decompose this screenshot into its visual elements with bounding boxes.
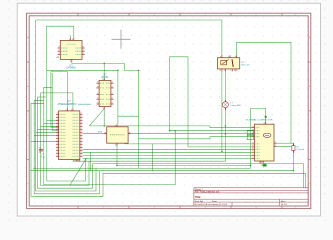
title block: [194, 188, 308, 206]
wire diagonal 1: [70, 158, 87, 185]
wire mcu left pin stub y132.3: [36, 131, 59, 133]
svg-text:Title:: Title:: [195, 195, 201, 199]
wire bus line a: [125, 143, 252, 145]
svg-text:Size: A4: Size: A4: [195, 200, 204, 203]
wire motor top feed: [251, 109, 266, 169]
wire vert 124 jog: [124, 63, 138, 70]
svg-text:CH-340G: CH-340G: [66, 68, 76, 70]
wire bus line c: [83, 148, 252, 150]
wire diagonal 2: [89, 109, 104, 126]
wire band row 163: [93, 164, 304, 188]
wire dht top up: [103, 63, 105, 80]
wire jog left of relay B: [187, 57, 189, 147]
wire mcu left pin stub y123.3: [44, 122, 59, 124]
wire motor right jog: [277, 142, 291, 144]
wire bus line e: [83, 154, 252, 156]
svg-text:ATMEGA328P-PU: ATMEGA328P-PU: [58, 103, 77, 106]
wire left rail 4: [41, 93, 89, 185]
wire row to motor pin1: [89, 126, 254, 128]
svg-text:RLY_5V: RLY_5V: [242, 65, 251, 67]
stepper U4 body: [254, 124, 274, 161]
net label box 2: [247, 135, 253, 139]
resistor R1 body: [292, 146, 295, 151]
svg-text:ST-NEMA17-CONNECTOR: ST-NEMA17-CONNECTOR: [246, 118, 273, 121]
wire mcu left pin stub y129.3: [37, 128, 58, 130]
lamp L1 circle: [222, 102, 228, 108]
wire U2 top pin short: [70, 35, 72, 38]
wire U2 top pin loop: [47, 26, 74, 70]
wire dht bottom down: [103, 107, 105, 126]
wire mcu left pin stub y135.3: [34, 134, 58, 136]
wire mcu top pinB up: [41, 93, 73, 108]
capacitor C1 pin marks: [39, 146, 40, 149]
wire row 63 from U2 bottom: [72, 62, 125, 63]
lamp L1 cross: [224, 103, 228, 107]
net label near U1: [78, 104, 91, 105]
wire mcu left pin stub y126.3: [41, 125, 59, 127]
svg-text:File: FinalChallenge.sch: File: FinalChallenge.sch: [195, 192, 220, 194]
svg-text:DHT11: DHT11: [101, 77, 109, 79]
wire left rail 2: [34, 100, 99, 194]
wire left rail 3: [37, 97, 92, 188]
svg-text:Rev:: Rev:: [281, 201, 286, 203]
wire left rail 6: [47, 70, 86, 181]
relay K1 body: [218, 58, 240, 69]
wire resistor bottom rail: [30, 151, 293, 171]
wire motor right to resistor: [277, 145, 294, 147]
stepper U4 oval: [263, 133, 271, 137]
wire relay NO to resistor net: [237, 42, 294, 145]
wire left rail long: [36, 20, 96, 191]
wire bus line b: [188, 146, 252, 148]
wire mcu left pin stub y141.3: [31, 140, 59, 142]
wire relay pin2 down: [221, 71, 223, 152]
svg-text:0.1u: 0.1u: [41, 157, 45, 159]
wire row 70 to speaker: [47, 69, 118, 71]
ground motor bottom: [263, 164, 266, 167]
svg-text:KiCad E.D.A. eeschema (5.1.5): KiCad E.D.A. eeschema (5.1.5)-3: [195, 203, 228, 206]
speaker BZ1 pins: [104, 124, 131, 146]
wire bus line f: [83, 157, 252, 159]
wire bus line d: [83, 151, 252, 153]
wire speaker to motor: [128, 133, 254, 135]
capacitor C1: [39, 148, 43, 150]
svg-text:BUZ: BUZ: [98, 132, 103, 134]
svg-text:Date:: Date:: [212, 200, 218, 203]
wire speaker top up: [117, 70, 119, 124]
relay K1 coil: [221, 60, 227, 65]
wire band row 165: [117, 164, 251, 166]
frame ticks: [27, 13, 311, 209]
IC U3 pins: [96, 78, 113, 109]
wire relay bottom to lamp: [225, 71, 227, 101]
node motor top: [265, 116, 267, 118]
wire pair vertical 2: [52, 73, 58, 130]
relay K1 arrow: [222, 60, 228, 64]
frame border outer: [27, 13, 311, 208]
wire mcu top pinA up: [51, 72, 68, 128]
IC U2 pins: [58, 38, 85, 62]
IC U1 ATMEGA328P body: [59, 111, 80, 160]
wire speaker bottom down: [116, 143, 118, 165]
crosshair origin marker: [112, 38, 131, 40]
wire mid drop 152: [152, 144, 154, 171]
resistor R1 pins: [292, 143, 294, 145]
wire lamp bottom down: [224, 108, 226, 161]
junction dots: [103, 63, 105, 65]
lamp L1 pins: [224, 100, 226, 101]
frame border inner: [29, 16, 308, 206]
svg-text:Lamp_BW: Lamp_BW: [231, 105, 242, 107]
wire left rail 1: [31, 103, 305, 196]
IC U3 DHT11 body: [99, 80, 111, 106]
wire band row 161: [73, 160, 225, 162]
wire mcu bottom pin wire: [72, 160, 74, 162]
svg-text:R_Small: R_Small: [297, 149, 305, 151]
relay K1 switch: [232, 59, 233, 67]
svg-text:Id: 1/1: Id: 1/1: [281, 204, 288, 206]
relay K1 pins: [220, 55, 236, 71]
IC U1 pins: [56, 108, 83, 161]
wire band row 168: [33, 167, 251, 169]
wire speaker branch right: [118, 115, 139, 117]
speaker BZ1 body: [107, 127, 128, 143]
wire row to motor pin2: [170, 130, 255, 132]
wire motor bottom hook: [262, 163, 267, 166]
wire mcu left pin stub y120.4: [47, 119, 59, 121]
wire row to motor pin4: [139, 137, 255, 139]
wire left rail 5: [44, 87, 175, 184]
wire stub vert 90: [90, 152, 92, 170]
stepper U4 pins: [252, 122, 277, 164]
wire jog left of relay A: [170, 57, 188, 131]
net label box 1: [247, 130, 253, 134]
IC U2 CH-340G body: [60, 40, 82, 59]
wire vert 138 long: [138, 70, 140, 168]
wire mcu to speaker: [83, 133, 107, 135]
wire relay coil feed top rail: [36, 20, 222, 56]
